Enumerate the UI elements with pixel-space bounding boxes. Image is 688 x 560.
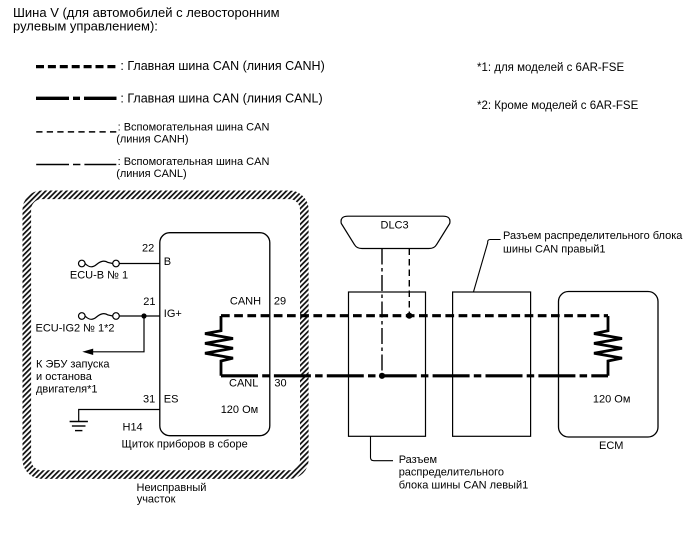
- svg-text:(линия CANH): (линия CANH): [116, 133, 188, 145]
- svg-text:21: 21: [143, 296, 155, 308]
- svg-text:CANL: CANL: [229, 377, 258, 389]
- svg-text:31: 31: [143, 393, 155, 405]
- svg-text:*1: для моделей с 6AR-FSE: *1: для моделей с 6AR-FSE: [477, 62, 624, 74]
- svg-text:К ЭБУ запуска: К ЭБУ запуска: [36, 359, 110, 371]
- svg-text:рулевым управлением):: рулевым управлением):: [13, 19, 158, 34]
- svg-text:Щиток приборов в сборе: Щиток приборов в сборе: [122, 438, 248, 450]
- DLC3 connector body: [341, 216, 450, 248]
- resistor R (120 Ohm) in ECM: [594, 316, 622, 376]
- wire: branch to engine start/stop ECU: [93, 316, 145, 352]
- fuse ECU-IG2 No.1: [79, 313, 120, 320]
- svg-text:DLC3: DLC3: [381, 220, 409, 232]
- svg-text:: Вспомогательная шина CAN: : Вспомогательная шина CAN: [118, 156, 270, 168]
- wire: fuse ECU-IG2 to pin 21: [119, 315, 160, 317]
- svg-text:30: 30: [274, 377, 286, 389]
- CAN junction connector left (rect): [349, 292, 426, 436]
- svg-text:и останова: и останова: [36, 371, 93, 383]
- svg-text:29: 29: [274, 295, 286, 307]
- svg-text:IG+: IG+: [164, 308, 182, 320]
- svg-text:участок: участок: [137, 494, 176, 506]
- svg-text:ES: ES: [164, 393, 179, 405]
- svg-text:Разъем: Разъем: [399, 454, 437, 466]
- wire: fuse ECU-B to pin 22: [119, 263, 160, 265]
- callout leader: left junction connector: [371, 436, 394, 460]
- arrowhead to engine start/stop ECU: [82, 349, 93, 355]
- fuse ECU-B No.1: [79, 260, 120, 267]
- svg-text:Неисправный: Неисправный: [137, 482, 207, 494]
- callout leader: right junction connector: [474, 240, 501, 292]
- junction dot: DLC3 CANH drop on CANH bus: [406, 313, 412, 319]
- ECM box: [559, 292, 659, 438]
- svg-text:CANH: CANH: [230, 295, 261, 307]
- main bus wire CANL (thick dash-dot), H14 resistor to ECM resistor: [221, 374, 608, 377]
- main bus wire CANH (thick dashed), H14 resistor to ECM resistor: [221, 314, 608, 317]
- svg-text:(линия CANL): (линия CANL): [116, 168, 186, 180]
- svg-text:ECU-IG2 № 1*2: ECU-IG2 № 1*2: [36, 323, 115, 335]
- junction dot: DLC3 CANL drop on CANL bus: [379, 373, 385, 379]
- svg-text:шины CAN правый1: шины CAN правый1: [503, 244, 606, 256]
- svg-text:ECU-B № 1: ECU-B № 1: [70, 270, 128, 282]
- aux bus wire: DLC3 CANL drop (thin dash-dot vertical): [381, 249, 383, 376]
- svg-text:: Главная шина CAN (линия CANH: : Главная шина CAN (линия CANH): [120, 59, 324, 73]
- svg-text:блока шины CAN левый1: блока шины CAN левый1: [399, 479, 529, 491]
- aux bus wire: DLC3 CANH drop (thin dashed vertical): [408, 249, 410, 316]
- svg-text:: Вспомогательная шина CAN: : Вспомогательная шина CAN: [118, 122, 270, 134]
- svg-text:120 Ом: 120 Ом: [221, 404, 259, 416]
- svg-text:H14: H14: [123, 421, 143, 433]
- ground symbol: [70, 422, 88, 431]
- svg-text:Разъем распределительного блок: Разъем распределительного блока: [503, 230, 683, 242]
- svg-text:ECM: ECM: [599, 440, 623, 452]
- resistor R (120 Ohm) in H14: [205, 316, 233, 376]
- junction dot on IG+ wire: [141, 313, 146, 318]
- legend sample: main bus CANL (thick dash-dot): [36, 97, 117, 100]
- faulty-area hatched border: [27, 195, 305, 475]
- wire: pin 31 ES to ground: [79, 410, 160, 422]
- legend sample: aux bus CANL (thin dash-dot): [36, 164, 116, 166]
- legend sample: aux bus CANH (thin dashed): [36, 131, 116, 133]
- svg-text:: Главная шина CAN (линия CANL: : Главная шина CAN (линия CANL): [120, 91, 322, 105]
- svg-text:распределительного: распределительного: [399, 467, 504, 479]
- svg-text:B: B: [164, 256, 171, 268]
- svg-text:двигателя*1: двигателя*1: [36, 384, 98, 396]
- CAN junction connector right (rect): [453, 292, 531, 436]
- combination meter H14 box: [160, 233, 270, 436]
- svg-text:*2: Кроме моделей с 6AR-FSE: *2: Кроме моделей с 6AR-FSE: [477, 100, 639, 112]
- svg-text:22: 22: [142, 243, 154, 255]
- legend sample: main bus CANH (thick dashed): [36, 65, 117, 68]
- svg-text:120 Ом: 120 Ом: [593, 393, 631, 405]
